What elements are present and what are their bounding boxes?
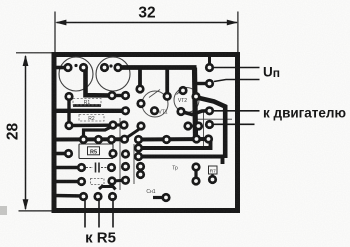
pad Un2 — [205, 79, 214, 88]
pad row2 left — [134, 143, 143, 152]
wire: row2 with elbow up — [139, 141, 211, 148]
callout line Un a — [214, 67, 260, 69]
pad T4a — [178, 86, 187, 95]
leader line T3 — [149, 90, 160, 98]
wire: pad pair link — [112, 94, 126, 97]
wire: diagonal pad D to pad E — [125, 127, 142, 139]
pads — [63, 63, 217, 202]
pad pair a — [183, 121, 192, 130]
wire: left border to T1 pad — [54, 66, 69, 70]
pad M2 — [205, 120, 214, 129]
pad T3a — [150, 106, 159, 115]
pad P6 — [64, 121, 73, 130]
pad T1 right — [79, 63, 88, 72]
pad cap right — [107, 163, 116, 172]
pad row139 d — [120, 135, 129, 144]
wire: pad row y181 link — [112, 179, 126, 183]
thin outline line b — [133, 144, 135, 184]
pad T1 mid dot — [74, 64, 77, 67]
resistor R2 dashed outline — [79, 115, 104, 122]
wire: border row y139 — [54, 137, 125, 141]
wire: S trace to motor pad — [181, 111, 210, 115]
resistor R5 outline box — [79, 144, 113, 159]
pad Un1 — [205, 63, 214, 72]
pad row1 right b — [204, 134, 213, 143]
thin outline line d — [197, 118, 232, 120]
transistor T1 outline circle — [59, 57, 93, 91]
callout line R5 a — [84, 198, 86, 228]
callout line R5 c — [112, 198, 114, 228]
wire: border to pad row a — [54, 109, 126, 113]
pad M1 — [205, 106, 214, 115]
pad col140 y103 — [136, 99, 145, 108]
pad T1 left — [63, 63, 72, 72]
wire: elbow from T1 right pad down and right — [86, 69, 113, 96]
callout line motor a — [214, 110, 260, 112]
diode dashed outline — [91, 179, 105, 185]
callout line motor b — [214, 123, 255, 125]
capacitor C1 symbol — [86, 163, 108, 173]
callout line R5 b — [98, 198, 100, 228]
wire: stub up from pad and over — [84, 126, 114, 140]
wire: elbow from pad P18 down right side — [197, 98, 225, 159]
dimension 28 line — [16, 53, 52, 211]
wire: row3 with elbow down — [139, 157, 223, 165]
pad pair b — [194, 121, 203, 130]
transistor T3 outline circle — [142, 91, 168, 117]
scan smudge — [0, 206, 7, 215]
leader line T4 — [177, 88, 185, 95]
pad B — [119, 120, 128, 129]
wire: row1 — [139, 137, 209, 141]
wire: bus stub to pad — [138, 68, 142, 89]
wire: pad pair link right — [188, 125, 199, 128]
pad stub1 — [135, 84, 144, 93]
wire: trace under R1 — [73, 104, 101, 107]
dimension 32 line — [55, 12, 238, 53]
pad R5 right — [108, 149, 117, 158]
wire: Un pad stub to top border — [208, 55, 211, 68]
pad col125 y166 — [121, 162, 130, 171]
transistor T4 outline circle — [174, 88, 199, 113]
wire: top bus — [118, 65, 197, 70]
pad T2 left — [100, 63, 109, 72]
pad B2 — [93, 192, 102, 201]
pad row1 mid — [162, 135, 171, 144]
pad row1 right a — [192, 134, 201, 143]
pad holes — [66, 66, 214, 200]
wire: elbow above bottom pads — [99, 187, 116, 190]
wire: pad A to pad B — [113, 123, 124, 126]
thin outline line c — [203, 112, 205, 150]
pad B4 — [161, 193, 170, 202]
board outline — [54, 55, 238, 211]
pad T2 right — [113, 63, 122, 72]
wire: stub to bottom right pad — [153, 196, 166, 199]
pad P9 — [121, 106, 130, 115]
pad P18 — [191, 92, 200, 101]
pad row139 c — [107, 135, 116, 144]
pad stub2 — [163, 92, 172, 101]
pad P8 — [121, 91, 130, 100]
callout line Un b — [214, 80, 260, 82]
wire: border to pad left d — [54, 152, 69, 156]
pad row139 b — [94, 135, 103, 144]
wire: border row y195 — [54, 194, 84, 198]
pad row1 left — [134, 135, 143, 144]
thin outline line a — [119, 118, 121, 190]
wire: vertical pad link left — [67, 97, 70, 126]
wire: link pad Un2 — [196, 82, 210, 85]
transistor T2 outline circle — [96, 57, 130, 91]
wire: R7 stub — [211, 175, 214, 179]
pad col140 y174 — [136, 170, 145, 179]
pad B1 — [79, 192, 88, 201]
pad P39 — [191, 176, 200, 185]
pad T4b — [176, 107, 185, 116]
pad A — [108, 120, 117, 129]
pad B3 — [108, 192, 117, 201]
pad row139 a — [79, 135, 88, 144]
pad P7 — [107, 91, 116, 100]
pad row181 b — [107, 176, 116, 185]
pad row3 left — [134, 152, 143, 161]
wire: row y125 from P6 to pad A — [69, 123, 113, 127]
resistor R7 small box — [209, 166, 218, 174]
pad col140 y166 — [136, 162, 145, 171]
pad row181 a — [77, 177, 86, 186]
pad row181 c — [121, 176, 130, 185]
pad cap left — [77, 163, 86, 172]
pad P27 — [64, 149, 73, 158]
wire: bus stub 2 — [165, 68, 169, 95]
pad col125 y154 — [121, 149, 130, 158]
pad E — [136, 121, 145, 130]
pad T2 mid dot — [109, 64, 112, 67]
pad P5 — [64, 92, 73, 101]
wire: border row y181 — [54, 180, 82, 184]
wire: border to cap pad — [54, 166, 82, 170]
pad below R7 — [208, 175, 217, 184]
wire: pad link vertical right — [194, 167, 197, 181]
pad P38 — [191, 162, 200, 171]
wire: thick vertical from bus — [195, 68, 196, 139]
resistor R1 dashed outline — [73, 99, 101, 106]
